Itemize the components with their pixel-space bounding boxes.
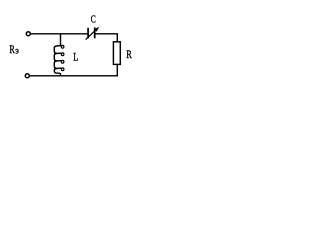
terminal top-left [26, 32, 30, 36]
resistor R body [113, 42, 120, 65]
inductor L turn 4 [54, 68, 61, 76]
svg-text:C: C [91, 14, 96, 26]
variable-capacitor arrow shaft [86, 28, 98, 40]
inductor L turn 3 [54, 61, 61, 68]
terminal bottom-left [25, 74, 29, 78]
svg-text:R: R [9, 42, 14, 56]
svg-text:R: R [126, 47, 132, 61]
variable-capacitor arrowhead [95, 27, 99, 31]
svg-text:э: э [15, 46, 19, 56]
inductor L turn 2 [54, 53, 61, 61]
capacitor C right plate [94, 27, 96, 38]
wire resistor bottom to bottom rail [29, 64, 117, 75]
svg-text:L: L [73, 50, 78, 64]
inductor L top lead [60, 34, 62, 46]
capacitor C left plate [87, 28, 89, 39]
inductor L turn 1 [54, 46, 61, 54]
wire top from terminal to capacitor left plate [31, 33, 88, 35]
wire top from capacitor right plate to right corner [95, 34, 118, 42]
